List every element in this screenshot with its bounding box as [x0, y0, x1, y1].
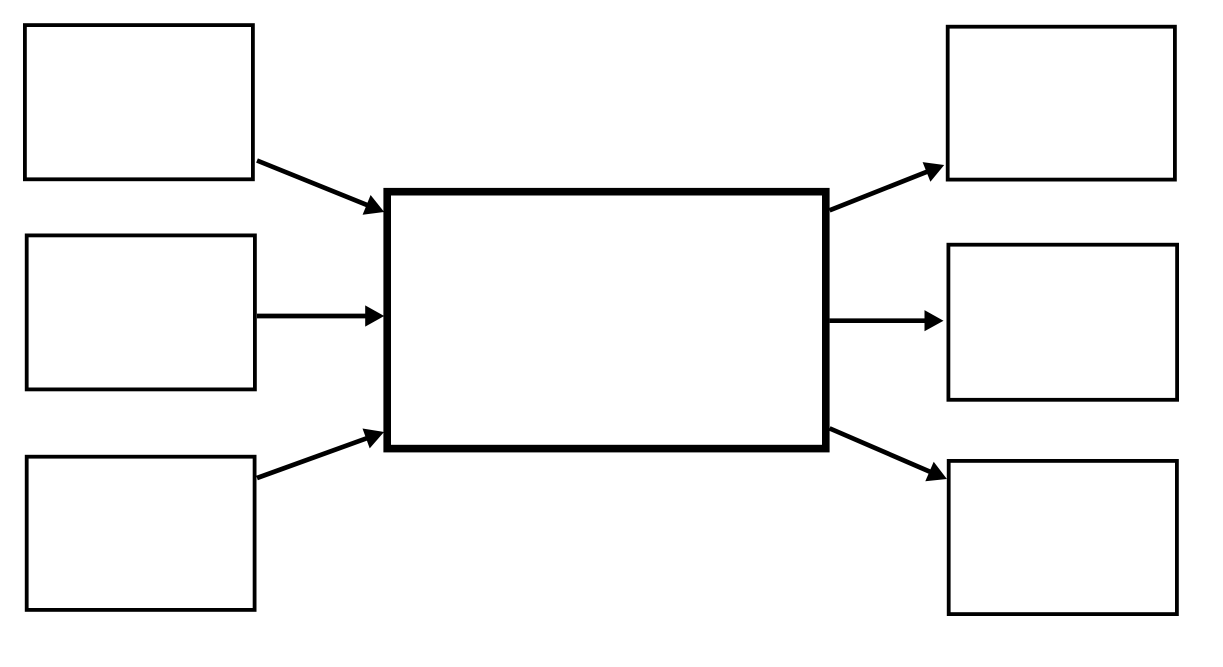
- arrow-1 top-left to center: [257, 161, 384, 215]
- arrow-4 center to top-right: [830, 162, 945, 210]
- box-top-right: [948, 27, 1175, 180]
- box-center: [387, 192, 826, 449]
- box-top-left: [25, 25, 253, 179]
- box-mid-right: [948, 245, 1177, 400]
- arrow-6 center to bottom-right: [830, 428, 947, 481]
- box-bottom-left: [27, 457, 255, 610]
- arrow-5 center to mid-right: [830, 310, 944, 331]
- box-mid-left: [27, 235, 255, 389]
- box-bottom-right: [949, 461, 1177, 614]
- arrow-2 mid-left to center: [257, 305, 384, 326]
- arrow-3 bottom-left to center: [257, 429, 384, 479]
